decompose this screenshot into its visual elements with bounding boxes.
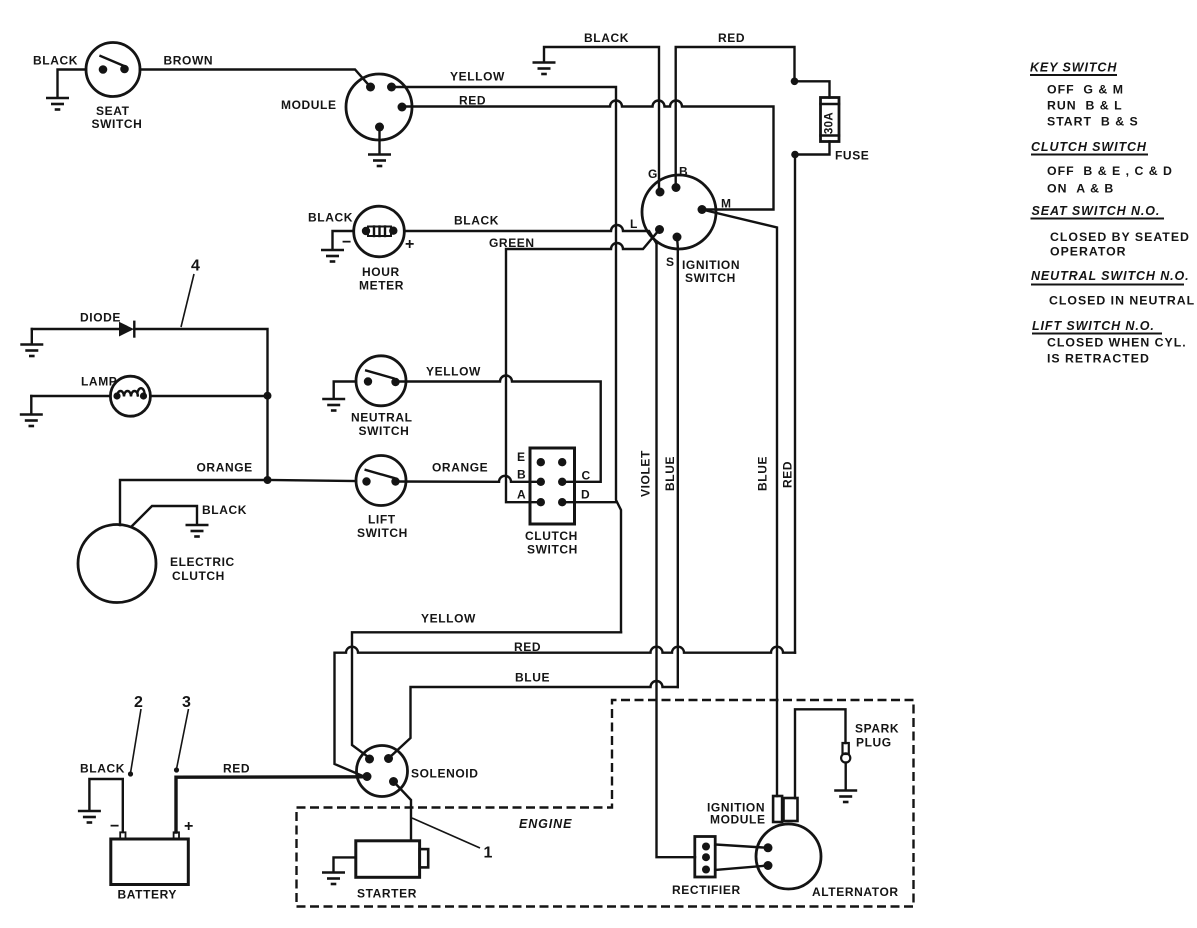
svg-text:C: C (582, 469, 591, 483)
svg-text:SEAT: SEAT (96, 104, 130, 118)
svg-text:IGNITION: IGNITION (682, 258, 740, 272)
svg-text:BLACK: BLACK (202, 503, 247, 517)
svg-text:BROWN: BROWN (164, 54, 214, 68)
legend SEAT SWITCH N.O. (1031, 204, 1190, 259)
svg-text:BLACK: BLACK (584, 31, 629, 45)
node fuse top junction (791, 78, 799, 86)
svg-text:MODULE: MODULE (710, 813, 766, 827)
wire YELLOW horizontal to solenoid (352, 612, 621, 759)
svg-text:ENGINE: ENGINE (519, 817, 572, 831)
svg-text:HOUR: HOUR (362, 265, 400, 279)
wire BLACK hour meter to ground (308, 211, 354, 250)
svg-text:PLUG: PLUG (856, 736, 892, 750)
lamp L1 (81, 375, 150, 417)
wire diode row (32, 329, 268, 396)
wire BROWN seat switch to module (140, 54, 371, 88)
svg-text:RED: RED (718, 31, 745, 45)
ground spark plug (834, 791, 857, 803)
svg-text:YELLOW: YELLOW (426, 365, 481, 379)
svg-text:ALTERNATOR: ALTERNATOR (812, 885, 899, 899)
wire spark plug to ground (845, 763, 847, 791)
wire BLACK hour meter to violet vertical, hop over x617 (404, 214, 656, 244)
wire YELLOW neutral switch to clutch switch C, hop over green vertical (396, 365, 601, 482)
neutral switch S4 (351, 356, 413, 438)
svg-text:BATTERY: BATTERY (118, 888, 178, 902)
svg-text:ORANGE: ORANGE (197, 461, 253, 475)
svg-text:SWITCH: SWITCH (92, 117, 143, 131)
wire ignition module to spark plug (795, 709, 846, 798)
svg-text:2: 2 (134, 694, 143, 711)
svg-text:LIFT SWITCH N.O.: LIFT SWITCH N.O. (1032, 319, 1155, 333)
wire BLACK battery negative to ground (80, 762, 125, 833)
label 4 with leader (181, 258, 200, 328)
ground module (368, 127, 391, 166)
svg-text:RUN B & L: RUN B & L (1047, 99, 1123, 113)
wire rectifier to alternator top (715, 845, 768, 848)
wire ORANGE lift switch to clutch switch B, hop over green vertical (396, 461, 541, 482)
svg-text:SWITCH: SWITCH (527, 543, 578, 557)
svg-text:SWITCH: SWITCH (685, 271, 736, 285)
svg-text:VIOLET: VIOLET (639, 450, 653, 497)
wire BLACK seat switch to ground (33, 54, 86, 98)
svg-text:IS RETRACTED: IS RETRACTED (1047, 352, 1150, 366)
starter M2 (356, 841, 428, 901)
svg-text:S: S (666, 255, 675, 269)
label 1 with leader (412, 818, 493, 862)
legend LIFT SWITCH N.O. (1032, 319, 1187, 366)
hour meter M1 (342, 206, 414, 292)
svg-text:DIODE: DIODE (80, 311, 121, 325)
svg-text:OFF G & M: OFF G & M (1047, 83, 1124, 97)
svg-text:FUSE: FUSE (835, 149, 869, 163)
wire RED battery positive to solenoid (176, 762, 364, 833)
battery BT1 (110, 818, 193, 902)
wire to fuse top (795, 81, 830, 97)
wire RED module output to ignition M, hops over x616,x659,x676 (402, 94, 774, 210)
legend KEY SWITCH (1030, 61, 1139, 129)
spark plug P1 (841, 722, 899, 763)
wire RED vertical fuse to red horizontal (794, 155, 796, 653)
svg-text:BLACK: BLACK (454, 214, 499, 228)
svg-text:CLOSED WHEN CYL.: CLOSED WHEN CYL. (1047, 336, 1187, 350)
svg-text:SEAT SWITCH N.O.: SEAT SWITCH N.O. (1032, 204, 1161, 218)
wire BLUE horizontal to solenoid, hop over violet (390, 671, 678, 758)
wire clutch switch D to yellow vertical (562, 501, 616, 503)
svg-text:CLOSED BY SEATED: CLOSED BY SEATED (1050, 230, 1190, 244)
wire GREEN clutch A to ignition L, hop on horizontals elsewhere (489, 230, 660, 503)
engine dashed boundary (297, 700, 914, 907)
svg-text:RED: RED (781, 461, 795, 488)
svg-text:+: + (405, 236, 414, 253)
wire ORANGE left to electric clutch (120, 461, 268, 526)
alternator G1 (756, 824, 899, 899)
svg-text:D: D (581, 488, 590, 502)
svg-text:YELLOW: YELLOW (421, 612, 476, 626)
svg-text:METER: METER (359, 279, 404, 293)
ignition switch S2 (630, 165, 740, 286)
lift switch S3 (356, 456, 408, 541)
ground electric clutch (186, 525, 209, 537)
svg-text:ON A & B: ON A & B (1047, 182, 1114, 196)
svg-text:BLUE: BLUE (663, 456, 677, 491)
svg-text:ELECTRIC: ELECTRIC (170, 555, 235, 569)
svg-text:−: − (342, 234, 351, 251)
wire BLACK top ground to ignition G (544, 31, 659, 192)
label 3 with leader (174, 694, 191, 773)
svg-text:NEUTRAL SWITCH N.O.: NEUTRAL SWITCH N.O. (1031, 269, 1190, 283)
ground lamp (20, 396, 43, 426)
ignition module U3 (707, 796, 798, 827)
ground starter (322, 873, 345, 885)
svg-text:L: L (630, 217, 638, 231)
svg-text:YELLOW: YELLOW (450, 70, 505, 84)
svg-text:CLOSED IN NEUTRAL: CLOSED IN NEUTRAL (1049, 294, 1195, 308)
svg-text:M: M (721, 197, 732, 211)
label 2 with leader (128, 694, 143, 777)
wire solenoid to starter (394, 782, 412, 841)
wire ORANGE junction to lift switch (268, 480, 357, 481)
wire from fuse bottom (795, 142, 830, 155)
svg-text:30A: 30A (824, 112, 836, 134)
wire rectifier to alternator bottom (715, 866, 768, 871)
ground seat switch (46, 98, 69, 110)
seat switch S1 (86, 43, 142, 132)
svg-text:CLUTCH SWITCH: CLUTCH SWITCH (1031, 140, 1147, 154)
legend CLUTCH SWITCH (1031, 140, 1173, 196)
wire RED horizontal fuse line to solenoid, hops over x352,x656,x678,x777 (335, 640, 796, 777)
clutch switch S5 (517, 448, 591, 557)
svg-text:BLACK: BLACK (308, 211, 353, 225)
svg-text:CLUTCH: CLUTCH (525, 529, 578, 543)
node fuse bottom junction (791, 151, 799, 159)
svg-text:3: 3 (182, 694, 191, 711)
svg-text:CLUTCH: CLUTCH (172, 569, 225, 583)
svg-text:BLUE: BLUE (756, 456, 770, 491)
svg-text:RED: RED (223, 762, 250, 776)
wire starter to ground (334, 857, 356, 871)
wire BLUE ignition M diagonal down to ignition module (702, 210, 777, 797)
svg-text:A: A (517, 488, 526, 502)
svg-text:SWITCH: SWITCH (357, 526, 408, 540)
wire neutral switch to ground (334, 382, 356, 399)
solenoid K1 (357, 746, 479, 797)
node junction diode/lamp vertical (264, 392, 272, 400)
svg-text:MODULE: MODULE (281, 98, 337, 112)
svg-text:BLACK: BLACK (80, 762, 125, 776)
wire VIOLET vertical down to rectifier (657, 244, 696, 858)
svg-text:BLUE: BLUE (515, 671, 550, 685)
node junction orange (264, 476, 272, 484)
svg-text:RECTIFIER: RECTIFIER (672, 883, 741, 897)
svg-text:B: B (517, 468, 526, 482)
wire vertical to orange junction (266, 396, 268, 480)
svg-text:NEUTRAL: NEUTRAL (351, 411, 413, 425)
svg-text:BLACK: BLACK (33, 54, 78, 68)
svg-text:SPARK: SPARK (855, 722, 899, 736)
ground battery (78, 811, 101, 823)
wire RED top from ignition B up to fuse branch (676, 31, 795, 188)
svg-text:SOLENOID: SOLENOID (411, 767, 478, 781)
svg-text:B: B (679, 165, 688, 179)
diode D1 (80, 311, 134, 337)
legend NEUTRAL SWITCH N.O. (1031, 269, 1195, 308)
rectifier U2 (672, 837, 741, 898)
svg-text:1: 1 (484, 845, 493, 862)
module U1 (281, 74, 412, 140)
svg-text:4: 4 (191, 258, 200, 275)
svg-text:+: + (184, 818, 193, 835)
svg-text:START B & S: START B & S (1047, 115, 1139, 129)
svg-text:KEY SWITCH: KEY SWITCH (1030, 61, 1117, 75)
ground hour meter (321, 250, 344, 262)
wire YELLOW module output, down to clutch switch D junction (392, 70, 622, 633)
wire BLUE ignition S down to blue horizontal (676, 237, 679, 687)
wire BLACK electric clutch to ground (132, 503, 248, 527)
electric clutch CL1 (78, 525, 235, 603)
svg-text:G: G (648, 167, 658, 181)
svg-text:OFF B & E , C & D: OFF B & E , C & D (1047, 164, 1173, 178)
svg-text:E: E (517, 450, 526, 464)
svg-text:STARTER: STARTER (357, 887, 417, 901)
svg-text:LIFT: LIFT (368, 513, 396, 527)
wire lamp row (31, 395, 267, 397)
ground diode (20, 329, 43, 356)
ground top black wire (533, 63, 556, 75)
fuse F1 30A (821, 98, 870, 163)
svg-text:ORANGE: ORANGE (432, 461, 488, 475)
svg-text:SWITCH: SWITCH (359, 424, 410, 438)
ground neutral switch (322, 399, 345, 411)
svg-text:OPERATOR: OPERATOR (1050, 245, 1127, 259)
svg-text:−: − (110, 818, 119, 835)
